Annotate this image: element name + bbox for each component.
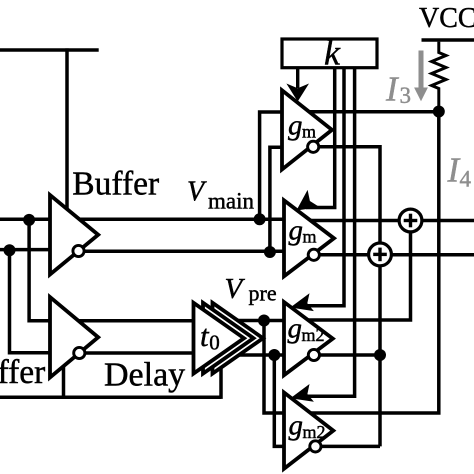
arrowhead feedback into U4 [296,190,319,211]
node input upper [23,214,35,226]
svg-text:VCC: VCC [419,3,474,34]
svg-text:m: m [302,121,316,141]
resistor R1 [432,42,446,112]
bubble gm-cell U6 inverted output [310,441,321,452]
node input lower [4,244,16,256]
wire vertical V_main node up to gm-cell U3 upper input [260,112,285,219]
wire summer S1 down to gm-cell U5 output tap [308,232,411,321]
delay cell t0 stage 2 [203,303,254,374]
wire gm-cell U3 inverted output down to summer S2 [314,147,380,244]
wire k-box output 2 down to feedback arrow of U5 [302,68,344,306]
arrow I3 current (gray) [419,51,424,90]
buffer U1 [50,195,98,275]
wire lower delay node down to gm-cell U6 lower input [274,355,285,446]
node delay inverted output [268,349,280,361]
wire input rail top-left [0,48,99,52]
wire vertical node B to buffer U2 lower input [10,250,53,353]
svg-text:m2: m2 [303,422,326,442]
wire gm-cell U4 output through summer S1 to right edge [311,219,474,223]
svg-text:V: V [187,177,207,208]
wire k-box output 3 down to feedback arrow of U6 [302,68,355,397]
svg-text:Buffer: Buffer [0,354,45,391]
svg-text:m2: m2 [302,325,325,345]
wire buffer U1 inverted output to gm-cell U4 lower input [84,250,286,254]
bubble gm-cell U5 inverted output [308,349,319,360]
op-amp U4 (gm) [284,200,334,276]
bubble gm-cell U4 inverted output [308,249,319,260]
summer S2 [369,243,392,266]
summer S1 [399,209,422,232]
wire buffer U1 lower input from left edge [0,248,52,252]
svg-text:g: g [288,110,303,142]
svg-text:3: 3 [400,83,412,108]
bubble buffer U2 inverted output [74,347,85,358]
svg-text:Delay: Delay [104,357,185,394]
svg-text:g: g [289,215,304,247]
wire buffer U1 upper input from left edge [0,217,52,221]
wire V_pre node down to gm-cell U6 upper input [264,321,285,414]
wire delay box left edge [62,352,66,399]
wire delay box right edge [219,367,223,399]
wire gm-cell U5 inverted output to junction on S2 branch [314,353,380,357]
arrow k to gm-cell U3 [296,68,299,88]
wire I4 branch: resistor node down to gm-cell U6 output tap [311,112,439,413]
op-amp U5 (gm2) [284,302,333,375]
wire buffer U2 inverted output to delay cell lower input [85,351,196,355]
svg-text:main: main [208,188,254,213]
node V_main [254,213,266,225]
wire vertical from input rail down to buffer U1 [65,48,69,210]
wire gm-cell U4 inverted output through summer S2 to right edge [315,253,474,257]
svg-text:0: 0 [209,331,220,355]
svg-text:k: k [324,33,341,73]
node V_pre [258,315,270,327]
wire gm-cell U3 output to resistor node [309,110,439,114]
svg-text:g: g [288,313,303,345]
VCC rail [422,38,474,42]
delay cell t0 stage 1 [194,303,245,374]
svg-text:pre: pre [249,281,277,306]
arrowhead feedback into U6 [290,384,314,402]
wire delay inverted output to gm-cell U5 lower input [239,353,285,357]
wire summer S2 down to gm2-cell outputs junction [378,265,382,446]
arrowhead feedback into U5 [290,293,314,311]
node lower differential line [264,246,276,258]
op-amp U6 (gm2) [284,393,333,469]
node resistor / I4 junction [433,106,445,118]
svg-text:m: m [303,227,317,247]
buffer U2 [50,297,98,378]
wire vertical node A to buffer U2 upper input [29,220,52,321]
bubble gm-cell U3 inverted output [308,141,319,152]
wire delay output V_pre to gm-cell U5 upper input [238,319,285,323]
wire vertical lower node up to gm-cell U3 lower input [270,147,285,252]
bubble buffer U1 inverted output [73,245,84,256]
wire buffer U2 output to delay cell input [79,319,196,323]
wire k-box output 1 down to feedback arrow of U4 [306,68,335,208]
svg-text:g: g [289,410,304,442]
op-amp U3 (gm) [282,90,332,169]
svg-text:Buffer: Buffer [72,166,159,203]
wire bottom rail from left edge (delay box bottom) [0,396,221,400]
svg-text:4: 4 [460,167,472,192]
gain block k [282,39,377,68]
delay cell t0 stage 3 [213,303,264,374]
wire gm-cell U6 inverted output up to junction [318,445,380,449]
wire V_main net: buffer U1 output to gm-cell U4 input [79,217,285,221]
node gm2 outputs junction [374,349,386,361]
